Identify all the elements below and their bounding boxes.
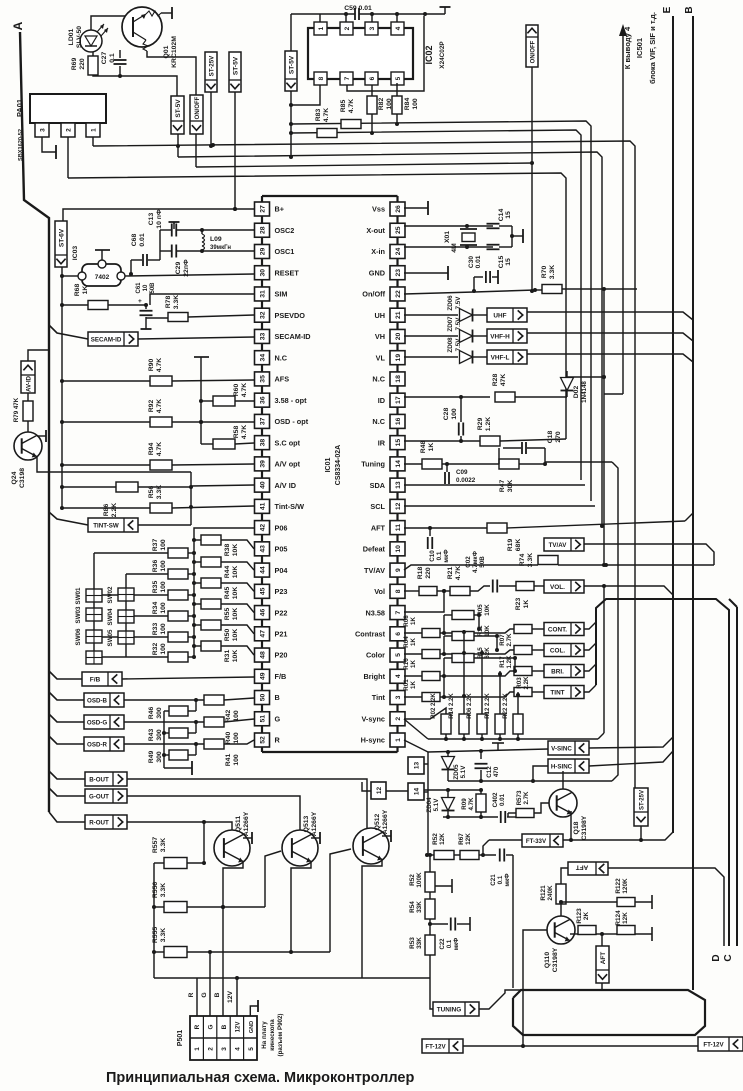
- switch SW04: [107, 608, 134, 625]
- svg-text:RESET: RESET: [275, 268, 300, 277]
- node box 13: [408, 757, 424, 774]
- svg-text:R46: R46: [148, 707, 155, 720]
- svg-text:На плату: На плату: [261, 1021, 268, 1049]
- svg-text:2.2K: 2.2K: [111, 503, 118, 517]
- wire pin22 OnOff extension: [404, 292, 474, 294]
- svg-text:H-SINC: H-SINC: [551, 764, 573, 771]
- svg-text:TV/AV: TV/AV: [549, 542, 568, 549]
- wire bus y146 to ST-25V line: [93, 141, 635, 788]
- svg-text:VHF-H: VHF-H: [490, 334, 510, 341]
- svg-text:5: 5: [248, 1047, 255, 1051]
- svg-text:120K: 120K: [622, 878, 629, 894]
- resistor R52 100K: [409, 853, 435, 899]
- svg-text:R573: R573: [516, 790, 523, 805]
- svg-text:A/V ID: A/V ID: [275, 481, 297, 490]
- svg-text:Q513: Q513: [303, 815, 310, 832]
- IC01 pin 24 X-in: [371, 244, 405, 258]
- svg-text:SW06: SW06: [75, 628, 82, 645]
- wire pin31 SIM: [150, 294, 254, 305]
- flag OSD-G: [84, 715, 124, 729]
- svg-text:21: 21: [395, 311, 402, 319]
- resistor R69 220: [71, 52, 98, 75]
- svg-text:OSD-R: OSD-R: [87, 742, 107, 749]
- svg-text:14: 14: [395, 460, 402, 468]
- flag V-SINC: [548, 741, 589, 755]
- svg-text:26: 26: [395, 205, 402, 213]
- resistor R60 4.7K: [201, 383, 254, 406]
- svg-text:R79 47K: R79 47K: [13, 397, 20, 422]
- IC01 pin 10 Defeat: [363, 542, 405, 556]
- svg-text:L09: L09: [210, 236, 222, 243]
- svg-text:30K: 30K: [507, 480, 514, 493]
- wire IC03 out to pin30 RESET: [125, 274, 254, 276]
- svg-text:GND: GND: [369, 268, 385, 277]
- svg-text:Q18: Q18: [573, 821, 580, 834]
- svg-text:33K: 33K: [416, 937, 423, 949]
- node C label: [723, 954, 734, 961]
- wire LED top to Q01 base: [91, 16, 127, 30]
- svg-text:R82: R82: [378, 98, 385, 111]
- resistor R19 68K: [487, 513, 693, 551]
- resistor R50 10K: [192, 620, 254, 641]
- svg-text:100: 100: [412, 98, 419, 110]
- svg-text:Tuning: Tuning: [361, 460, 385, 469]
- flag AFT (upper): [568, 862, 608, 875]
- svg-text:R32: R32: [152, 643, 159, 656]
- flag ON/OFF (left): [190, 95, 203, 134]
- svg-text:100: 100: [160, 602, 167, 614]
- svg-text:48: 48: [260, 651, 267, 659]
- flag OSD-R: [84, 737, 124, 751]
- wire border to R-OUT: [49, 812, 85, 822]
- wire ST-5V IC02 down rail: [290, 91, 292, 157]
- svg-text:R34: R34: [152, 602, 159, 615]
- svg-text:ZD06: ZD06: [447, 295, 454, 311]
- transistor Q512 A1266Y: [353, 809, 389, 864]
- wire pin12 SCL: [404, 505, 595, 507]
- svg-text:E: E: [662, 6, 673, 13]
- svg-text:R122: R122: [615, 878, 622, 894]
- wire AFT vertical bottom: [601, 983, 603, 990]
- wire border to F/B: [49, 671, 82, 679]
- svg-text:C18: C18: [547, 431, 554, 444]
- wire ST-5V down to B+ wire: [234, 92, 236, 209]
- capacitor C02 cap symbol: [493, 580, 516, 593]
- IC01 pin 18 N.C: [372, 372, 405, 386]
- wire B net Q511 emitter to P501: [223, 861, 243, 1016]
- svg-text:300: 300: [156, 751, 163, 763]
- svg-text:P501: P501: [177, 1030, 184, 1046]
- IC01 pin 47 P21: [255, 627, 288, 641]
- svg-text:15: 15: [505, 258, 512, 266]
- wire AV-ID up: [28, 350, 49, 361]
- svg-text:12V: 12V: [235, 1022, 241, 1033]
- wire border to G-OUT: [49, 788, 85, 796]
- svg-text:P23: P23: [275, 587, 288, 596]
- svg-text:44: 44: [260, 566, 267, 574]
- IC01 pin 1 H-sync: [361, 733, 405, 747]
- IC01 pin 32 PSEVDO: [255, 308, 306, 322]
- resistor R123 2K: [570, 908, 604, 936]
- svg-text:CS8334-02A: CS8334-02A: [335, 445, 342, 485]
- node box 14: [408, 783, 424, 800]
- svg-text:OSC1: OSC1: [275, 247, 295, 256]
- wire Hsync rail to VSINC flag: [428, 749, 548, 752]
- svg-text:G: G: [201, 992, 208, 997]
- IC01 pin 31 SIM: [255, 287, 288, 301]
- svg-text:B: B: [221, 1024, 228, 1029]
- svg-text:47K: 47K: [500, 374, 507, 387]
- svg-text:1.2K: 1.2K: [485, 417, 492, 431]
- svg-text:4.7K: 4.7K: [156, 442, 163, 456]
- svg-text:SBX1620-52: SBX1620-52: [18, 129, 24, 161]
- diode D02 1N4148: [561, 371, 605, 403]
- resistor R573 2.7K: [508, 790, 550, 817]
- IC01 pin 34 N.C: [255, 351, 288, 365]
- svg-text:Q512: Q512: [374, 813, 381, 830]
- svg-text:X24C02P: X24C02P: [439, 41, 446, 69]
- svg-text:C30: C30: [468, 256, 475, 268]
- wire R12 top: [499, 671, 501, 714]
- svg-text:VH: VH: [375, 332, 385, 341]
- svg-text:SECAM-ID: SECAM-ID: [275, 332, 311, 341]
- svg-text:R36: R36: [152, 560, 159, 573]
- crystal X01 4M: [404, 224, 493, 253]
- wire Q01 collector to supply bar: [161, 12, 172, 14]
- svg-text:5.1V: 5.1V: [433, 798, 440, 812]
- svg-text:R74: R74: [519, 554, 526, 567]
- resistor R18 220: [417, 567, 437, 596]
- svg-text:IC03: IC03: [72, 246, 79, 261]
- capacitor C30 0.01: [468, 255, 498, 293]
- svg-text:BRI.: BRI.: [551, 669, 564, 676]
- IC01 pin 12 SCL: [370, 499, 405, 513]
- svg-text:Q110: Q110: [544, 952, 551, 968]
- svg-text:R38: R38: [224, 544, 231, 557]
- svg-text:1K: 1K: [410, 681, 417, 689]
- wire left ST-5V rail: [61, 267, 63, 508]
- wire V-SINC right to E: [589, 737, 673, 748]
- svg-text:FT-12V: FT-12V: [703, 1042, 724, 1049]
- capacitor C27 0.1: [101, 50, 127, 76]
- svg-text:кинескопа: кинескопа: [269, 1019, 276, 1051]
- svg-text:36: 36: [260, 396, 267, 404]
- wire border to TINT-SW: [49, 512, 88, 525]
- svg-text:R84: R84: [404, 98, 411, 111]
- zener ZD06 7.5V: [404, 295, 473, 322]
- svg-text:ZD08: ZD08: [447, 337, 454, 353]
- svg-text:C3198: C3198: [19, 468, 26, 488]
- svg-text:R90: R90: [148, 359, 155, 372]
- svg-text:X-out: X-out: [366, 226, 385, 235]
- svg-text:10K: 10K: [232, 608, 239, 621]
- IC01 pin 36 3.58 - opt: [255, 393, 308, 407]
- svg-text:R17: R17: [499, 656, 506, 668]
- svg-text:ZD07: ZD07: [447, 316, 454, 332]
- IC01 pin 27 B+: [255, 202, 285, 216]
- resistor R28 47K: [492, 374, 567, 402]
- svg-text:SW01: SW01: [75, 587, 82, 604]
- svg-text:R03: R03: [516, 677, 523, 689]
- wire ZD05 bottom rail: [448, 780, 612, 782]
- wire bus y178: [68, 173, 566, 439]
- svg-text:R86: R86: [103, 504, 110, 517]
- wire R14 top: [463, 630, 465, 714]
- resistor R74 3.3K: [519, 553, 558, 567]
- svg-text:R92: R92: [148, 400, 155, 413]
- wire pin15 IR row: [404, 440, 480, 442]
- IC01 pin 11 AFT: [371, 521, 405, 535]
- svg-text:4.7K: 4.7K: [455, 566, 462, 580]
- wire R56 junction column: [190, 472, 192, 525]
- capacitor C59 0.01: [344, 5, 372, 20]
- wire ST-25V down to bus: [210, 92, 212, 146]
- svg-text:R40: R40: [225, 732, 232, 745]
- svg-text:10K: 10K: [484, 625, 491, 637]
- svg-text:7402: 7402: [95, 274, 110, 281]
- svg-text:R60: R60: [233, 384, 240, 397]
- IC01 pin 46 P22: [255, 606, 288, 620]
- IC01 pin 52 R: [255, 733, 281, 747]
- flag TINT: [544, 686, 584, 699]
- svg-text:R04: R04: [403, 636, 410, 648]
- wire box12 to box14: [386, 790, 408, 792]
- svg-text:SDA: SDA: [370, 481, 386, 490]
- ground C12 bar: [497, 743, 499, 750]
- node P902 note: [261, 1014, 284, 1057]
- svg-text:35: 35: [260, 375, 267, 383]
- wire pin8 Vol row: [404, 590, 419, 592]
- wire pin7 N358 stub: [404, 591, 444, 612]
- capacitor C61 10 50B: [136, 282, 156, 329]
- svg-text:C09: C09: [456, 469, 468, 476]
- wire ZD04 top rail: [424, 789, 481, 791]
- node A: [11, 21, 25, 30]
- wire SECAM-ID to pin33: [138, 337, 254, 339]
- svg-text:CONT.: CONT.: [548, 627, 567, 634]
- wire box12 left stub: [362, 782, 371, 791]
- wire rail dots left resistors: [60, 379, 64, 383]
- resistor BRI. series: [514, 667, 544, 676]
- svg-text:19: 19: [395, 354, 402, 362]
- svg-text:R45: R45: [224, 587, 231, 600]
- connector P501: [177, 1016, 257, 1060]
- svg-text:Tint: Tint: [372, 693, 386, 702]
- IC01 pin 13 SDA: [370, 478, 405, 492]
- wire G-OUT to Q513 top: [127, 796, 300, 831]
- resistor R33 100: [152, 623, 196, 642]
- resistor R11 10K: [452, 625, 499, 641]
- svg-text:1: 1: [91, 128, 98, 132]
- svg-text:100K: 100K: [416, 872, 423, 888]
- svg-text:23: 23: [395, 269, 402, 277]
- wire R60 column: [200, 357, 202, 444]
- IC01 pin 37 OSD - opt: [255, 414, 309, 428]
- svg-text:R58: R58: [233, 426, 240, 439]
- ground IC02 rail: [444, 7, 446, 14]
- svg-text:7.5V: 7.5V: [455, 296, 462, 310]
- svg-text:SW03: SW03: [75, 606, 82, 623]
- svg-text:ZD04: ZD04: [426, 797, 433, 813]
- svg-text:AFT: AFT: [600, 952, 607, 965]
- svg-text:R54: R54: [409, 901, 416, 913]
- svg-text:4.7мкФ: 4.7мкФ: [472, 550, 479, 573]
- svg-text:30: 30: [260, 269, 267, 277]
- svg-text:VOL.: VOL.: [550, 584, 565, 591]
- svg-text:C10: C10: [429, 550, 436, 562]
- svg-text:C21: C21: [490, 874, 497, 886]
- flag R-OUT: [85, 815, 127, 829]
- wire R rail left: [153, 863, 155, 978]
- svg-text:4: 4: [395, 26, 402, 30]
- svg-text:ST-5V: ST-5V: [233, 56, 240, 75]
- svg-text:Defeat: Defeat: [363, 545, 386, 554]
- svg-text:AV-ID: AV-ID: [26, 375, 33, 392]
- svg-text:P20: P20: [275, 651, 288, 660]
- op-amp IC02 X24C02P: [308, 22, 446, 85]
- svg-text:10K: 10K: [232, 544, 239, 557]
- svg-text:42: 42: [260, 524, 267, 532]
- IC01 pin 28 OSC2: [255, 223, 295, 237]
- svg-text:46: 46: [260, 609, 267, 617]
- wire pin42 P06 column: [194, 528, 254, 657]
- svg-text:100: 100: [160, 623, 167, 635]
- svg-text:R: R: [275, 736, 281, 745]
- resistor R08 1K: [403, 615, 514, 638]
- svg-text:Принципиальная схема. Микрокон: Принципиальная схема. Микроконтроллер: [106, 1070, 414, 1086]
- flag TUNING: [433, 1002, 479, 1016]
- wire R46 R43 R49 left column: [164, 710, 169, 712]
- svg-text:33: 33: [260, 332, 267, 340]
- wire pin26 Vss to ground: [404, 207, 428, 209]
- svg-text:R12 2.2K: R12 2.2K: [485, 693, 491, 719]
- IC01 pin 29 OSC1: [255, 244, 295, 258]
- svg-text:22: 22: [395, 290, 402, 298]
- IC01 pin 21 UH: [374, 308, 405, 322]
- svg-text:Color: Color: [366, 651, 385, 660]
- ground OSD network: [164, 767, 192, 769]
- resistor R53 33K: [409, 935, 435, 1009]
- svg-text:R55: R55: [224, 608, 231, 621]
- svg-text:G: G: [275, 714, 281, 723]
- wire to IC501 with up arrow: [622, 36, 624, 394]
- resistor R556 3.3K: [152, 851, 281, 913]
- connector PA01 SBX1620-52: [15, 94, 106, 161]
- resistor R124 12K: [602, 910, 652, 941]
- wire C line: [736, 607, 738, 946]
- wire SW col2 vertical: [125, 574, 127, 657]
- svg-text:10K: 10K: [484, 604, 491, 616]
- svg-text:A1266Y: A1266Y: [382, 809, 389, 834]
- svg-text:1K: 1K: [523, 600, 530, 609]
- svg-text:R18: R18: [417, 567, 424, 580]
- transistor Q110 C3198Y: [544, 916, 575, 972]
- svg-text:N.C: N.C: [275, 353, 288, 362]
- ground R60 column: [194, 356, 209, 358]
- svg-text:TINT: TINT: [550, 690, 564, 697]
- flag TV/AV: [544, 538, 584, 551]
- resistor TINT series: [514, 688, 544, 697]
- wire R net Q512 emitter: [362, 859, 382, 978]
- wire tuner box outline: [513, 990, 705, 1035]
- svg-text:2.7K: 2.7K: [506, 633, 513, 647]
- transistor Q511 A1266Y: [214, 811, 250, 866]
- svg-text:0.01: 0.01: [475, 255, 482, 268]
- LED LD01 SLV-50: [68, 24, 108, 52]
- IC01 pin 35 AFS: [255, 372, 290, 386]
- wire C28 to R29 row: [460, 436, 462, 441]
- svg-text:3.3K: 3.3K: [160, 883, 167, 897]
- resistor R40 100: [124, 717, 254, 744]
- svg-text:F/B: F/B: [275, 672, 287, 681]
- svg-text:R85: R85: [340, 100, 347, 113]
- svg-text:47: 47: [260, 630, 267, 638]
- svg-text:300: 300: [156, 707, 163, 719]
- svg-text:A/V opt: A/V opt: [275, 460, 301, 469]
- IC01 pin 41 Tint-S/W: [255, 499, 305, 513]
- svg-text:C22: C22: [440, 938, 446, 950]
- resistor R79 47K: [13, 393, 33, 422]
- svg-text:R70: R70: [541, 266, 548, 279]
- svg-text:R-OUT: R-OUT: [89, 820, 109, 827]
- resistor R82 100: [367, 85, 393, 135]
- flag TINT-SW: [88, 518, 138, 532]
- resistor R34 100: [152, 602, 196, 621]
- svg-text:B: B: [275, 693, 280, 702]
- transistor Q24 C3198: [11, 432, 42, 488]
- wire R05 column: [444, 614, 452, 616]
- transistor Q01 KRC102M: [122, 7, 178, 68]
- wire TINT-SW to column: [138, 524, 191, 526]
- flag FT-12V (right): [698, 1037, 743, 1051]
- wire VOL flag right: [584, 586, 673, 595]
- svg-text:ON/OFF: ON/OFF: [531, 40, 537, 63]
- svg-text:38: 38: [260, 439, 267, 447]
- IC01 pin 23 GND: [369, 266, 405, 280]
- resistor R22 2.2K: [503, 693, 523, 741]
- capacitor C02 4.7uF 50V: [465, 550, 486, 573]
- capacitor C28 100: [443, 397, 463, 436]
- svg-text:A1266Y: A1266Y: [243, 811, 250, 836]
- svg-text:C28: C28: [443, 408, 450, 421]
- switch SW06: [75, 628, 102, 645]
- resistor R49 300: [148, 743, 196, 763]
- svg-text:4.7K: 4.7K: [468, 797, 475, 811]
- svg-text:32: 32: [260, 311, 267, 319]
- wire VHF-H to bus B: [527, 333, 693, 341]
- resistor R122 120K: [559, 878, 652, 909]
- resistor R92 4.7K: [62, 399, 254, 427]
- wire pin23 GND bar: [404, 272, 448, 274]
- svg-text:R37: R37: [152, 539, 159, 552]
- resistor R70 3.3K: [533, 265, 637, 294]
- flag FT-12V (left): [422, 1039, 463, 1053]
- svg-text:3: 3: [395, 695, 402, 699]
- svg-text:IC01: IC01: [325, 458, 332, 473]
- svg-text:R: R: [194, 1024, 201, 1029]
- switch SW01: [75, 587, 102, 604]
- resistor R16 1K: [403, 658, 514, 681]
- svg-text:R41: R41: [225, 754, 232, 767]
- svg-text:16: 16: [395, 417, 402, 425]
- svg-text:3.3K: 3.3K: [160, 838, 167, 852]
- svg-text:SW02: SW02: [107, 586, 114, 603]
- svg-text:R: R: [188, 992, 195, 997]
- zener ZD07 7.5V: [404, 316, 473, 343]
- wire B-OUT to Q512 top: [127, 779, 367, 829]
- svg-text:PSEVDO: PSEVDO: [275, 311, 306, 320]
- svg-text:52: 52: [260, 736, 267, 744]
